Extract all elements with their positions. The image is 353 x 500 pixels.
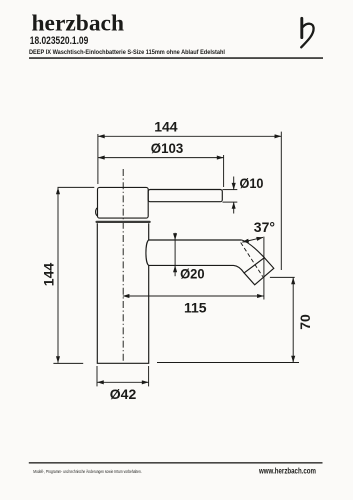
svg-text:115: 115 [184,300,207,316]
svg-text:18.023520.1.09: 18.023520.1.09 [30,35,89,47]
logo h-glyph [301,18,313,47]
housing seam thick line [97,221,150,223]
dimension 115 [123,237,264,300]
svg-text:37°: 37° [254,219,275,235]
angle 37deg annotation [242,237,263,242]
svg-text:Ø10: Ø10 [240,175,264,191]
body centerline [122,169,124,363]
lever handle [148,190,222,202]
dimension 70 [157,277,299,362]
svg-text:Ø103: Ø103 [151,140,184,156]
svg-text:144: 144 [41,263,57,287]
faucet cartridge housing [98,187,149,218]
faucet body [97,223,148,363]
svg-text:Ø20: Ø20 [180,266,205,282]
dimension 144 top [98,132,281,270]
dimension D20 [174,233,176,276]
svg-text:Modell-, Programm- und technis: Modell-, Programm- und technische Änderu… [33,468,141,475]
header rule [29,57,323,59]
dimension D10 [223,177,238,214]
svg-text:70: 70 [297,314,313,330]
svg-text:DEEP IX Waschtisch-Einlochbatt: DEEP IX Waschtisch-Einlochbatterie S-Siz… [29,49,225,56]
svg-text:144: 144 [154,119,178,135]
svg-text:herzbach: herzbach [32,10,124,36]
dimension D103 [98,155,223,187]
footer rule [29,462,323,463]
svg-text:www.herzbach.com: www.herzbach.com [258,466,316,475]
svg-text:Ø42: Ø42 [110,386,137,402]
dimension 144 left [53,187,94,363]
left bump [96,208,98,216]
spout end piece [244,258,274,285]
dimension D42 [97,366,149,386]
hidden axis dashed [241,243,263,277]
spout tube [146,240,264,273]
